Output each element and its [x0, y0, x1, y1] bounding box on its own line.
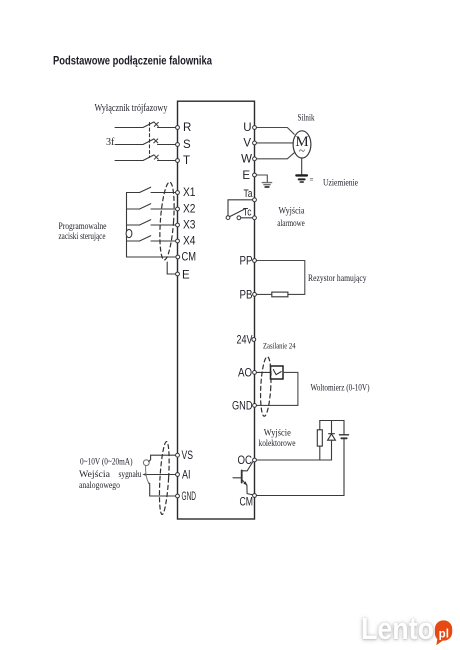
svg-text:U: U — [243, 122, 251, 134]
terminal PB — [253, 293, 257, 297]
svg-text:zaciski sterujące: zaciski sterujące — [59, 232, 106, 242]
relay contact throw — [237, 216, 241, 220]
shield ellipse (control wires, dashed) — [158, 182, 177, 261]
svg-text:24V: 24V — [237, 334, 253, 346]
switch X4 stub — [127, 240, 140, 242]
switch X3 stub — [127, 224, 140, 226]
terminal AI — [176, 473, 180, 477]
battery B1 short plate — [341, 437, 346, 439]
diode D1 anode leg — [331, 440, 333, 460]
battery B1 long plate — [339, 434, 348, 436]
motor M1 — [293, 131, 311, 158]
svg-text:X3: X3 — [183, 219, 196, 231]
switch X3 blade — [140, 220, 151, 225]
resistor R-load — [317, 430, 322, 446]
relay contact pole — [226, 216, 230, 220]
svg-text:W: W — [241, 154, 252, 166]
inverter box U1 — [178, 101, 255, 519]
shield ellipse (AO, dashed) — [259, 356, 272, 416]
svg-text:alarmowe: alarmowe — [277, 219, 305, 229]
terminal Tc — [253, 216, 257, 220]
switch X2 blade — [140, 204, 151, 209]
wire X1 lead — [151, 192, 178, 194]
switch X1 blade — [140, 187, 151, 192]
svg-text:OC: OC — [238, 455, 253, 467]
label: Programowalne zaciski sterujace — [59, 222, 107, 242]
wire motor to ground — [301, 158, 303, 175]
shield drain wire to E — [167, 262, 177, 274]
svg-text:Wejścia: Wejścia — [79, 470, 111, 480]
svg-text:E: E — [242, 170, 250, 182]
terminal OC — [253, 458, 257, 462]
svg-text:V: V — [243, 138, 251, 150]
wire OC rail — [255, 459, 332, 461]
transistor Q1 emitter — [242, 480, 247, 485]
wire contact to Tc — [241, 217, 255, 219]
wire U to motor — [255, 128, 295, 135]
potentiometer lower leg — [146, 466, 149, 483]
terminal AO — [253, 371, 257, 375]
relay blade K1 — [230, 209, 245, 216]
breaker pole S1b blade — [143, 139, 154, 145]
svg-text:Uziemienie: Uziemienie — [323, 178, 358, 188]
resistor R-load top leg — [319, 421, 321, 430]
shield ellipse (analog, dashed) — [158, 441, 171, 514]
terminal GND (right) — [253, 404, 257, 408]
terminal T — [176, 159, 180, 163]
terminal E (right) — [253, 173, 257, 177]
wire AI lead — [147, 474, 178, 476]
diode D1 triangle — [328, 434, 336, 440]
svg-text:Wyjścia: Wyjścia — [279, 206, 306, 216]
svg-text:PB: PB — [240, 289, 253, 301]
wire X4 lead — [151, 240, 178, 242]
svg-text:pl: pl — [439, 628, 449, 640]
svg-text:Podstawowe podłączenie falowni: Podstawowe podłączenie falownika — [53, 56, 212, 68]
terminal 24V — [252, 338, 256, 342]
terminal S — [176, 143, 180, 147]
transistor Q1 base lead — [233, 477, 242, 479]
wire resistor to PB — [255, 293, 272, 295]
diode D1 cathode leg — [331, 421, 333, 434]
wire phase R right lead — [158, 127, 178, 129]
wire top rail — [320, 420, 344, 422]
diode D1 cathode bar — [329, 433, 335, 435]
svg-text:X2: X2 — [183, 203, 196, 215]
wire CM lead — [127, 256, 178, 258]
wire GND lead (analog) — [149, 483, 178, 496]
voltmeter P1 box — [271, 366, 284, 379]
svg-text:PP: PP — [240, 255, 253, 267]
breaker pole S1a blade — [143, 122, 154, 128]
svg-text:GND: GND — [182, 491, 197, 503]
resistor R-load bottom leg — [319, 446, 321, 460]
svg-text:T: T — [183, 155, 190, 167]
terminal X4 — [176, 239, 180, 243]
terminal VS — [176, 453, 180, 457]
terminal X3 — [176, 223, 180, 227]
terminal U — [253, 126, 257, 130]
wire W to motor — [255, 153, 295, 159]
svg-text:Zasilanie 24: Zasilanie 24 — [263, 341, 296, 351]
label: analog input values — [79, 456, 142, 491]
battery B1 bottom leg — [343, 438, 345, 495]
svg-text:VS: VS — [182, 450, 194, 462]
wire voltmeter loop to GND — [255, 372, 298, 405]
control bus wire — [126, 193, 128, 258]
bus connector circle — [126, 229, 132, 237]
ground (motor) — [296, 175, 307, 182]
terminal V — [253, 141, 257, 145]
svg-text:E: E — [182, 269, 190, 281]
wire X3 lead — [151, 224, 178, 226]
transistor Q1 emitter arrow — [243, 481, 247, 485]
svg-text:kolektorowe: kolektorowe — [259, 439, 296, 449]
svg-text:sygnału: sygnału — [119, 470, 142, 480]
breaker pole S1c x-mark — [154, 155, 158, 159]
terminal CM (left) — [176, 255, 180, 259]
equals mark near motor ground — [310, 178, 313, 180]
terminal E (left) — [176, 272, 180, 276]
breaker mechanical linkage (dashed) — [149, 123, 151, 158]
svg-text:X1: X1 — [183, 187, 196, 199]
svg-text:R: R — [183, 122, 191, 134]
svg-text:AI: AI — [182, 469, 191, 481]
label: Wyjscia alarmowe — [277, 206, 305, 228]
svg-text:Ta: Ta — [244, 188, 254, 200]
battery B1 top leg — [343, 421, 345, 435]
wire E to earth — [255, 175, 268, 182]
svg-text:GND: GND — [232, 400, 253, 412]
transistor Q1 bar — [241, 470, 243, 482]
switch X1 stub — [127, 192, 140, 194]
breaker pole S1c blade — [143, 155, 154, 161]
svg-text:Wyłącznik trójfazowy: Wyłącznik trójfazowy — [95, 103, 168, 114]
wire phase T right lead — [158, 160, 178, 162]
ground (E terminal, earth) — [262, 183, 271, 187]
voltmeter needle — [273, 370, 281, 375]
label: Wyjscie kolektorowe — [259, 429, 296, 449]
switch X2 stub — [127, 208, 140, 210]
watermark bubble — [435, 620, 452, 645]
terminal GND (left) — [176, 494, 180, 498]
terminal X1 — [176, 191, 180, 195]
svg-text:Programowalne: Programowalne — [59, 222, 107, 232]
transistor Q1 collector lead — [242, 461, 253, 471]
switch X4 blade — [140, 236, 151, 241]
terminal X2 — [176, 207, 180, 211]
breaker pole S1b x-mark — [154, 139, 158, 143]
svg-text:X4: X4 — [183, 235, 196, 247]
svg-text:Silnik: Silnik — [298, 113, 315, 123]
wire X2 lead — [151, 208, 178, 210]
svg-text:Rezystor hamujący: Rezystor hamujący — [308, 274, 367, 284]
wire VS lead — [149, 455, 178, 461]
transistor Q1 emitter lead — [247, 485, 254, 495]
wire CM rail — [255, 495, 345, 497]
terminal CM (right) — [253, 494, 257, 498]
resistor R-brake — [272, 292, 288, 297]
wire PP loop — [255, 261, 305, 295]
wire phase S right lead — [158, 144, 178, 146]
svg-text:AO: AO — [238, 367, 252, 379]
svg-text:Wyjście: Wyjście — [264, 429, 291, 439]
svg-text:CM: CM — [240, 497, 254, 509]
svg-text:~: ~ — [299, 145, 305, 157]
terminal PP — [253, 259, 257, 263]
wire V to motor — [255, 142, 294, 144]
terminal W — [253, 157, 257, 161]
wire Ta to relay contact — [228, 200, 255, 216]
svg-text:Lento: Lento — [361, 611, 434, 646]
svg-text:Tc: Tc — [243, 207, 252, 219]
potentiometer wiper arrow — [142, 473, 146, 476]
svg-text:CM: CM — [182, 252, 197, 264]
svg-text:S: S — [183, 139, 191, 151]
terminal R — [176, 126, 180, 130]
breaker pole S1a x-mark — [154, 122, 158, 126]
potentiometer RP1 — [143, 460, 149, 466]
svg-text:3f: 3f — [106, 137, 115, 148]
wire phase T left lead — [115, 160, 143, 162]
wire phase S left lead — [115, 144, 143, 146]
terminal Ta — [253, 198, 257, 202]
svg-text:Woltomierz (0-10V): Woltomierz (0-10V) — [311, 382, 370, 392]
wire phase R left lead — [115, 127, 143, 129]
svg-text:analogowego: analogowego — [79, 481, 120, 491]
watermark Lento logo — [361, 611, 452, 647]
svg-text:0~10V (0~20mA): 0~10V (0~20mA) — [80, 456, 133, 467]
wire AO lead — [255, 371, 271, 373]
